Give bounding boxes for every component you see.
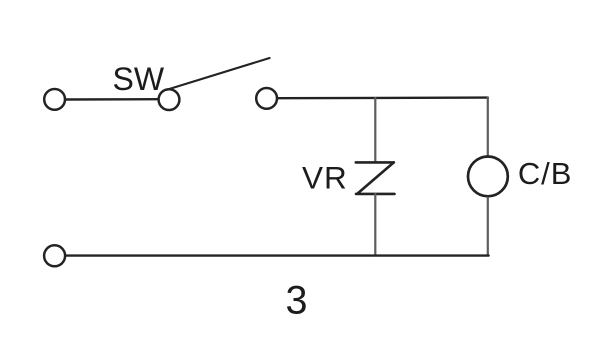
varistor VR symbol: [356, 162, 395, 194]
switch SW pivot terminal: [159, 89, 180, 110]
svg-text:C/B: C/B: [518, 156, 572, 191]
svg-text:SW: SW: [113, 61, 165, 97]
switch SW blade: [167, 58, 270, 90]
wire C/B branch bottom: [487, 198, 489, 256]
svg-text:VR: VR: [302, 159, 348, 195]
terminal bottom-left: [44, 245, 65, 266]
terminal top-left: [44, 89, 65, 110]
terminal switch contact: [256, 88, 277, 109]
wire top-left segment: [66, 98, 159, 101]
wire C/B branch top: [487, 98, 489, 156]
svg-text:3: 3: [286, 279, 308, 323]
wire VR branch top: [374, 98, 376, 162]
circuit breaker C/B: [468, 157, 508, 197]
wire top horizontal: [278, 96, 488, 99]
wire bottom horizontal: [66, 254, 489, 256]
wire VR branch bottom: [374, 194, 376, 256]
